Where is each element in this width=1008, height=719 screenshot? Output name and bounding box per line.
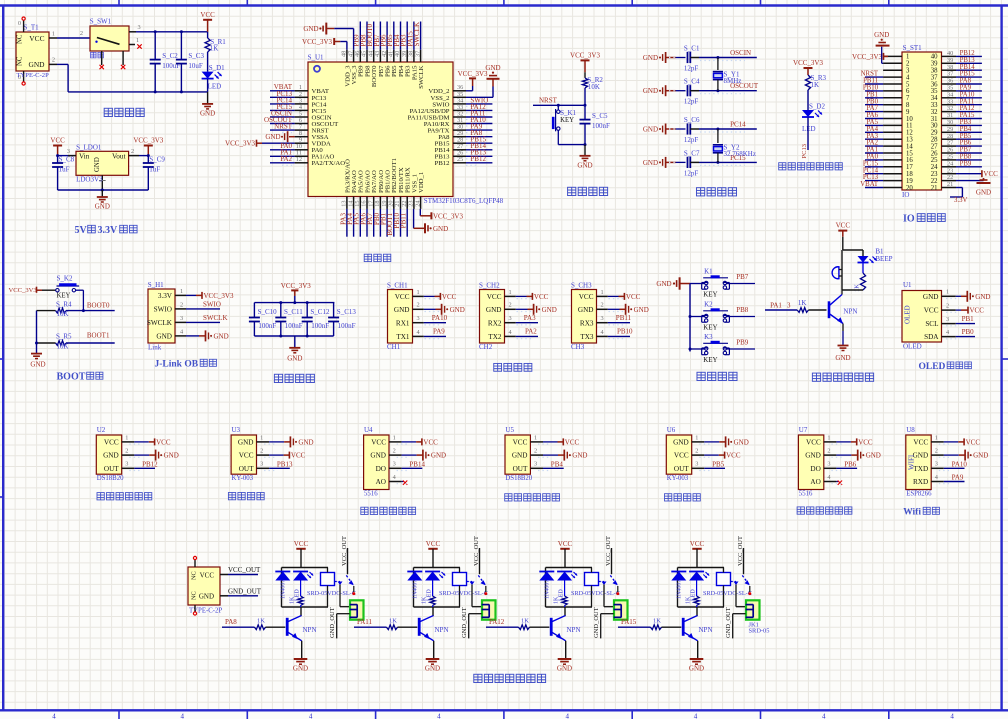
svg-text:PA10: PA10 [432, 314, 448, 322]
module U7 5516 [798, 435, 823, 490]
svg-text:BOOT: BOOT [57, 372, 86, 383]
svg-text:GND_OUT: GND_OUT [725, 607, 732, 638]
svg-text:3: 3 [946, 316, 949, 323]
svg-text:OLED: OLED [919, 362, 946, 372]
svg-text:OUT: OUT [239, 465, 254, 473]
svg-text:3.3V: 3.3V [98, 225, 119, 236]
svg-text:1: 1 [125, 434, 128, 441]
OLED VCC port [956, 309, 961, 311]
svg-text:VCC: VCC [29, 34, 44, 43]
svg-text:S_C5: S_C5 [592, 112, 608, 120]
svg-text:VCC: VCC [200, 11, 215, 19]
capacitor S_C8 [57, 156, 59, 163]
ST1 pin 34 [942, 97, 957, 99]
header S_CH1 [388, 290, 413, 344]
wire emitter rail [842, 289, 863, 291]
S_CH1 pin 4 TX1 [413, 335, 424, 337]
net PB1 [956, 323, 975, 325]
capacitor S_C10 100nF [253, 303, 255, 318]
svg-text:4: 4 [181, 713, 185, 719]
svg-text:U2: U2 [97, 426, 106, 434]
svg-text:PA12: PA12 [489, 618, 505, 626]
module U4 5516 [364, 435, 389, 490]
wire outline [414, 567, 461, 569]
svg-text:VCC: VCC [836, 222, 851, 230]
U1 OLED pin 2 VCC [942, 309, 956, 311]
svg-text:OLED: OLED [904, 305, 912, 324]
resistor 1K [564, 579, 566, 596]
svg-text:GND: GND [28, 60, 45, 69]
relay coil [585, 573, 599, 586]
svg-text:GND: GND [643, 54, 658, 62]
ST1 pin 25 [942, 159, 957, 161]
svg-text:VCC: VCC [239, 452, 254, 460]
U1 pin 17 PA7/AO [373, 197, 375, 209]
svg-text:GND: GND [643, 87, 658, 95]
svg-text:S_U1: S_U1 [308, 54, 324, 62]
capacitor S_C6 [665, 124, 667, 135]
svg-text:GND: GND [214, 332, 229, 340]
U1 pin 9 VDDA [295, 142, 308, 144]
svg-text:3: 3 [695, 461, 698, 468]
svg-text:BOOT1: BOOT1 [87, 332, 110, 340]
net PB0 [956, 336, 975, 338]
svg-text:VCC_3V3: VCC_3V3 [852, 53, 882, 61]
svg-text:PB6: PB6 [844, 460, 857, 468]
svg-text:1N4007: 1N4007 [677, 580, 683, 599]
MCU S_U1 STM32F103C8T6 [308, 62, 453, 197]
svg-text:VCC: VCC [294, 540, 309, 548]
svg-text:GND: GND [94, 157, 101, 172]
svg-text:2: 2 [935, 448, 938, 455]
S_CH2 GND [516, 308, 528, 310]
U1 pin 31 PA10/RX [453, 123, 466, 125]
svg-text:TX2: TX2 [488, 333, 502, 341]
svg-text:1: 1 [52, 30, 55, 37]
svg-text:GND_OUT: GND_OUT [228, 587, 262, 595]
transistor NPN [550, 618, 553, 636]
U1 OLED pin 4 SDA [942, 336, 956, 338]
net BOOT0 [66, 310, 115, 312]
svg-text:2: 2 [695, 448, 698, 455]
ST1 pin 27 [942, 145, 957, 147]
svg-text:K2: K2 [704, 301, 713, 309]
ground [31, 353, 42, 355]
svg-text:3: 3 [509, 315, 512, 322]
svg-text:K1: K1 [704, 268, 713, 276]
svg-text:2: 2 [125, 448, 128, 455]
svg-text:GND: GND [542, 306, 557, 314]
svg-text:4: 4 [437, 713, 441, 719]
U5 pin 2 GND [530, 454, 543, 456]
svg-text:GND: GND [303, 25, 318, 33]
svg-text:VCC: VCC [966, 438, 981, 446]
svg-text:1uF: 1uF [149, 166, 160, 174]
svg-text:U8: U8 [906, 426, 915, 434]
U1 pin 20 PB2/BOOT1 [393, 197, 395, 209]
svg-text:PB12: PB12 [142, 460, 158, 468]
svg-text:GND: GND [199, 593, 214, 601]
U1 pin 33 PA12/USB/DP [453, 109, 466, 111]
title 复位电路 [568, 187, 576, 195]
svg-text:S_ST1: S_ST1 [903, 44, 923, 52]
svg-text:KY-003: KY-003 [667, 475, 689, 482]
U8 pin 4 RXD [931, 481, 944, 483]
OLED GND [956, 295, 961, 297]
U1 pin 3 PC14 [295, 103, 308, 105]
U1 pin 13 PA3/RX/AO [346, 197, 348, 209]
transistor NPN [418, 618, 421, 636]
svg-text:1: 1 [180, 288, 183, 295]
svg-text:1: 1 [534, 434, 537, 441]
svg-text:GND: GND [874, 31, 889, 39]
ST1 pin 9 [883, 111, 902, 113]
power port VCC [203, 19, 212, 21]
svg-text:GND: GND [431, 452, 446, 460]
svg-text:1N4007: 1N4007 [413, 580, 419, 599]
capacitor S_C11 100nF [280, 303, 282, 318]
ST1 pin 19 [883, 180, 902, 182]
svg-text:VCC_3V3: VCC_3V3 [204, 292, 234, 300]
module U6 KY-003 [666, 435, 691, 474]
svg-text:25: 25 [457, 156, 463, 163]
svg-text:KEY: KEY [560, 117, 574, 124]
sheet border frame [0, 4, 1008, 6]
svg-text:NC: NC [17, 34, 24, 44]
svg-text:1: 1 [509, 289, 512, 296]
ST1 pin21 3.3V [956, 187, 962, 189]
switch [467, 581, 473, 583]
svg-text:S_C3: S_C3 [188, 52, 204, 60]
svg-text:RX3: RX3 [580, 319, 594, 327]
ST1 pin 18 [883, 173, 902, 175]
capacitor S_C9 [147, 156, 149, 163]
svg-text:2: 2 [827, 448, 830, 455]
LED [425, 571, 440, 573]
svg-text:S_D1: S_D1 [209, 64, 225, 72]
svg-text:S_C2: S_C2 [162, 52, 178, 60]
svg-text:S_LDO1: S_LDO1 [76, 144, 102, 152]
svg-text:GND: GND [293, 665, 308, 673]
wire bottom rail [254, 335, 333, 337]
title 声光报警电路 [812, 373, 820, 381]
svg-text:IO: IO [903, 214, 915, 225]
U1 pin 29 PA8 [453, 136, 466, 138]
transistor NPN [286, 618, 289, 636]
svg-text:1K: 1K [421, 596, 427, 604]
ST1 pin 3 [883, 69, 902, 71]
svg-text:VCC: VCC [426, 540, 441, 548]
svg-text:NPN: NPN [567, 626, 581, 634]
svg-text:100nF: 100nF [592, 122, 610, 130]
U1 pin 24 VDD_1 [420, 197, 422, 209]
svg-text:5516: 5516 [799, 491, 813, 498]
U6 pin 3 OUT [692, 467, 705, 469]
svg-text:GND: GND [577, 161, 592, 169]
svg-text:1K: 1K [811, 81, 820, 89]
svg-text:5V: 5V [75, 225, 88, 236]
net PA10 [424, 322, 446, 324]
svg-text:10uF: 10uF [188, 62, 203, 70]
svg-text:BEEP: BEEP [875, 255, 892, 263]
svg-text:4: 4 [52, 713, 56, 719]
U1 pin 19 PB1/AO [386, 197, 388, 209]
svg-text:SWCLK: SWCLK [203, 314, 228, 322]
wire emitter / ground [697, 641, 699, 659]
crystal S_Y1 8MHz [717, 58, 719, 71]
svg-text:1: 1 [935, 434, 938, 441]
svg-text:OSCIN: OSCIN [730, 49, 751, 57]
U1 pin 25 PB12 [453, 162, 466, 164]
module U5 DS18B20 [505, 435, 530, 474]
S_CH1 pin 3 RX1 [413, 322, 424, 324]
power port VCC_3V3 [804, 67, 813, 69]
U5 pin 3 OUT [530, 467, 543, 469]
svg-text:1K: 1K [257, 617, 265, 624]
svg-text:KEY: KEY [703, 291, 717, 299]
wire collector [564, 607, 566, 615]
svg-text:3: 3 [67, 148, 70, 155]
U8 pin 1 VCC [931, 441, 944, 443]
svg-text:GND: GND [673, 439, 689, 447]
svg-text:4: 4 [309, 713, 313, 719]
ST1 pin 11 [883, 124, 902, 126]
resistor S_R1 [207, 32, 209, 38]
svg-text:SRD-05VDC-SL-C: SRD-05VDC-SL-C [703, 590, 752, 597]
svg-text:GND: GND [976, 189, 991, 197]
resistor S_R2 10K [584, 72, 586, 78]
svg-text:GND: GND [30, 361, 45, 369]
svg-text:GND: GND [923, 293, 939, 301]
ST1 pin2 GND [882, 62, 883, 64]
power port VCC_3V3 [581, 59, 590, 61]
relay coil [453, 573, 467, 586]
svg-text:21: 21 [931, 185, 938, 192]
svg-text:3: 3 [534, 461, 537, 468]
U1 pin 15 PA5/AO [359, 197, 361, 209]
svg-text:PA15: PA15 [621, 618, 637, 626]
capacitor S_C2 [154, 32, 156, 60]
U4 pin 4 AO [389, 481, 402, 483]
svg-text:3: 3 [125, 461, 128, 468]
ST1 pin 36 [942, 83, 957, 85]
U3 pin 3 OUT [257, 467, 270, 469]
svg-text:SWCLK: SWCLK [418, 65, 425, 89]
svg-text:S_C7: S_C7 [684, 149, 700, 157]
wire collector [300, 607, 302, 615]
svg-text:CH1: CH1 [387, 343, 401, 351]
svg-text:2: 2 [260, 448, 263, 455]
power port VCC [53, 145, 62, 147]
U1 pin 32 PA11/USB/DM [453, 116, 466, 118]
U3 pin 2 VCC [257, 454, 270, 456]
svg-text:21: 21 [947, 181, 953, 188]
relay coil [717, 573, 731, 586]
S_CH2 pin 3 RX2 [505, 322, 516, 324]
svg-text:DO: DO [810, 465, 820, 473]
title 继电器控制电路 [474, 674, 482, 682]
svg-text:2: 2 [417, 302, 420, 309]
U7 pin 4 AO [824, 481, 837, 483]
U1 pin 4 PC15 [295, 109, 308, 111]
svg-text:Vout: Vout [112, 152, 125, 160]
diode 1N4007 [671, 571, 686, 573]
U1 pin 30 PA9/TX [453, 129, 466, 131]
U2 pin 3 OUT [122, 467, 135, 469]
svg-text:2: 2 [180, 301, 183, 308]
svg-text:VCC: VCC [806, 439, 821, 447]
S_CH2 VCC port [516, 295, 527, 297]
U1 pin 27 PB14 [453, 149, 466, 151]
svg-text:S_CH1: S_CH1 [387, 281, 408, 289]
svg-text:VCC: VCC [674, 452, 689, 460]
LDO ground pin [101, 175, 103, 190]
S_CH3 VCC port [608, 295, 619, 297]
VDD_2 to VCC_3V3 port [466, 90, 473, 92]
diode 1N4007 [539, 571, 554, 573]
ST1 pin 26 [942, 152, 957, 154]
svg-text:12pF: 12pF [684, 169, 699, 177]
U1 pin 18 PB0/AO [379, 197, 381, 209]
svg-text:0: 0 [18, 21, 21, 27]
svg-text:S_K1: S_K1 [560, 109, 576, 117]
svg-text:U5: U5 [505, 426, 514, 434]
svg-text:1: 1 [417, 289, 420, 296]
S_CH1 pin 1 VCC [413, 295, 424, 297]
svg-text:VCC: VCC [626, 293, 641, 301]
H1 VCC_3V3 port [186, 294, 196, 296]
svg-text:2: 2 [534, 448, 537, 455]
svg-text:GND: GND [370, 452, 386, 460]
svg-text:3: 3 [601, 315, 604, 322]
svg-text:BOOT0: BOOT0 [87, 301, 110, 309]
svg-text:4: 4 [822, 713, 826, 719]
svg-text:GND: GND [656, 280, 671, 288]
title 程序运行指示灯 [779, 163, 786, 170]
svg-text:IO: IO [902, 191, 909, 199]
transistor NPN [841, 290, 843, 295]
svg-text:1N4007: 1N4007 [545, 580, 551, 599]
svg-text:GND: GND [485, 64, 500, 72]
U1 OLED pin 1 GND [942, 295, 956, 297]
svg-text:VCC: VCC [970, 307, 985, 315]
svg-text:KY-003: KY-003 [232, 475, 254, 482]
svg-text:32.768KHz: 32.768KHz [724, 150, 756, 158]
svg-text:SWIO: SWIO [203, 300, 221, 308]
svg-text:PB10: PB10 [617, 328, 633, 336]
U1 pin 38 PA15 [413, 50, 415, 62]
svg-text:PA9: PA9 [433, 328, 445, 336]
svg-text:GND: GND [298, 438, 313, 446]
svg-text:PB0: PB0 [962, 328, 975, 336]
svg-text:RX1: RX1 [396, 319, 410, 327]
svg-text:VCC: VCC [423, 438, 438, 446]
svg-text:PB8: PB8 [736, 306, 749, 314]
net SWCLK [186, 321, 220, 323]
switch S_SW1 [90, 26, 129, 51]
VDD_3 to VCC_3V3 port [340, 41, 347, 43]
svg-text:PB14: PB14 [409, 460, 425, 468]
svg-text:100nF: 100nF [258, 322, 276, 330]
ST1 pin22 GND [956, 180, 984, 182]
U1 pin 26 PB13 [453, 155, 466, 157]
U4 pin 3 DO [389, 467, 402, 469]
svg-text:NRST: NRST [539, 96, 558, 104]
svg-text:TXD: TXD [913, 465, 928, 473]
wire left rail [36, 311, 38, 354]
svg-text:VDD_1: VDD_1 [418, 172, 425, 193]
connector S_T1 TYPE-C-2P [16, 32, 49, 71]
svg-text:S_C4: S_C4 [684, 78, 700, 86]
svg-text:12: 12 [296, 156, 302, 163]
svg-text:PA2: PA2 [280, 155, 292, 163]
svg-text:VCC: VCC [156, 438, 171, 446]
pin 2 GND wire [49, 63, 57, 65]
svg-text:PB9: PB9 [736, 339, 749, 347]
S_CH3 pin 3 RX3 [597, 322, 608, 324]
svg-text:VCC: VCC [395, 293, 410, 301]
U1 pin 2 PC13 [295, 96, 308, 98]
ST1 pin 33 [942, 104, 957, 106]
svg-text:PA11: PA11 [357, 618, 373, 626]
svg-text:1: 1 [260, 434, 263, 441]
wire collector [696, 607, 698, 615]
svg-text:LED: LED [208, 83, 222, 91]
U1 pin 23 VSS_1 [413, 197, 415, 209]
svg-text:S_C1: S_C1 [684, 45, 700, 53]
net PB11 [608, 322, 630, 324]
U1 pin 35 VSS_2 [453, 96, 466, 98]
svg-text:U7: U7 [799, 426, 808, 434]
title 滤波电路 [274, 374, 282, 382]
wire GND_OUT [337, 613, 350, 615]
svg-text:2: 2 [393, 448, 396, 455]
net GND_OUT [220, 595, 228, 597]
ground [101, 190, 103, 197]
svg-text:1K: 1K [521, 617, 529, 624]
svg-text:37: 37 [414, 51, 421, 57]
svg-text:1K: 1K [553, 596, 559, 604]
svg-text:VCC: VCC [513, 439, 528, 447]
title 温度检测模块 [505, 494, 512, 501]
svg-text:VCC_3V3: VCC_3V3 [433, 212, 463, 220]
svg-text:CH3: CH3 [571, 343, 585, 351]
terminal connector JK [350, 600, 364, 619]
svg-text:Wifi: Wifi [903, 508, 921, 518]
svg-text:S_H1: S_H1 [148, 281, 164, 289]
ST1 pin 29 [942, 131, 957, 133]
switch [599, 581, 605, 583]
svg-text:SRD-05VDC-SL-C: SRD-05VDC-SL-C [307, 590, 356, 597]
title 电源电路 [104, 108, 112, 116]
svg-text:1: 1 [827, 434, 830, 441]
svg-text:2: 2 [601, 302, 604, 309]
svg-text:100nF: 100nF [311, 322, 329, 330]
svg-text:NRST: NRST [274, 123, 293, 131]
svg-text:NPN: NPN [303, 626, 317, 634]
svg-text:S_C13: S_C13 [337, 308, 357, 316]
title 霍尔模块 [664, 494, 671, 501]
svg-text:1: 1 [695, 434, 698, 441]
svg-text:PB5: PB5 [712, 460, 725, 468]
svg-text:RX2: RX2 [488, 319, 502, 327]
svg-text:NC: NC [191, 571, 198, 580]
wire outline [546, 567, 593, 569]
U1 pin 46 PB9 [359, 50, 361, 62]
svg-text:S_R4: S_R4 [56, 301, 72, 309]
S_CH3 pin 2 GND [597, 308, 608, 310]
U1 pin 47 VSS_3 [353, 50, 355, 62]
